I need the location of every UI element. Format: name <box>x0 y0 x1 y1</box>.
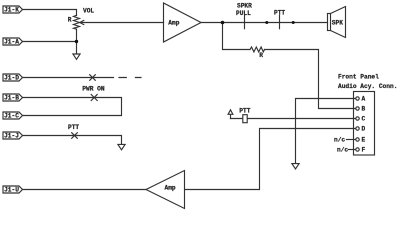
svg-text:Audio Acy. Conn.: Audio Acy. Conn. <box>338 83 397 90</box>
wire J1-A to pot bottom junction <box>23 41 77 43</box>
pin circle D <box>356 127 359 130</box>
svg-text:SPK: SPK <box>332 19 343 26</box>
svg-text:PWR ON: PWR ON <box>82 86 105 93</box>
connector tag J1-U <box>3 186 23 193</box>
svg-text:J1-K: J1-K <box>4 7 19 14</box>
wire Amp1 output bus to speaker <box>201 22 328 24</box>
svg-text:PTT: PTT <box>239 107 250 114</box>
switch SPKR PULL <box>244 15 246 28</box>
svg-text:n/c: n/c <box>334 136 345 143</box>
svg-text:J1-J: J1-J <box>4 133 19 140</box>
svg-text:Front Panel: Front Panel <box>338 73 379 80</box>
svg-text:PTT: PTT <box>68 124 79 131</box>
wire PTT jack to connector pin C <box>231 118 356 120</box>
svg-text:J1-U: J1-U <box>4 187 19 194</box>
connector J2 Front Panel Audio Acy. Conn. box <box>354 92 375 156</box>
svg-text:SPKR: SPKR <box>237 2 252 9</box>
svg-text:J1-A: J1-A <box>4 39 19 46</box>
wire resistor to connector pin B <box>265 50 356 109</box>
speaker SPK driver <box>328 14 331 31</box>
wire connector pin D to Amp2 input <box>185 129 356 190</box>
svg-text:F: F <box>362 147 366 154</box>
PTT jack box <box>243 115 247 123</box>
switch X PTT on J1-J <box>72 133 78 139</box>
op-amp Amp2 <box>146 171 185 209</box>
svg-text:VOL: VOL <box>83 7 94 14</box>
node junction dot pot / J1-A <box>75 40 78 43</box>
potentiometer R (VOL) zigzag <box>74 15 80 29</box>
svg-text:Amp: Amp <box>168 19 179 26</box>
wire Amp2 output to J1-U <box>23 189 147 191</box>
svg-text:Amp: Amp <box>165 184 176 191</box>
wire J1-D <box>23 77 114 79</box>
svg-text:D: D <box>362 126 366 133</box>
n/c stub pin F <box>349 149 356 151</box>
switch PTT <box>279 15 281 28</box>
pin circle B <box>356 107 359 110</box>
ground under J1-J line <box>118 144 125 149</box>
PTT jack up arrow <box>228 110 233 119</box>
pin circle A <box>356 97 359 100</box>
connector tag J1-C <box>3 112 23 119</box>
svg-text:R: R <box>68 17 72 24</box>
svg-text:C: C <box>362 116 366 123</box>
resistor R <box>250 47 265 52</box>
wiper arrow <box>80 20 84 24</box>
wire node to resistor branch <box>223 23 251 50</box>
svg-text:J1-B: J1-B <box>4 95 19 102</box>
wire J1-B through PWR ON to loop <box>23 98 122 116</box>
wire J1-J to ground <box>23 136 122 145</box>
ground under pot <box>73 54 80 59</box>
op-amp Amp1 <box>164 3 202 42</box>
dashed wire continuation <box>119 77 141 79</box>
svg-text:n/c: n/c <box>337 146 348 153</box>
pot bottom wire <box>76 29 78 54</box>
node junction dot Amp1 output <box>221 21 225 25</box>
pin circle C <box>356 117 359 120</box>
wire J1-K to pot top <box>23 10 77 16</box>
n/c stub pin E <box>347 139 356 141</box>
connector tag J1-J <box>3 132 23 139</box>
connector tag J1-D <box>3 74 23 81</box>
connector tag J1-A <box>3 38 23 45</box>
pin circle E <box>356 138 359 141</box>
speaker SPK horn <box>331 7 346 38</box>
junction dot right of PTT switch <box>292 21 295 24</box>
svg-text:J1-C: J1-C <box>4 113 19 120</box>
svg-text:PTT: PTT <box>274 9 285 16</box>
wire wiper to Amp1 input <box>80 22 163 24</box>
svg-text:A: A <box>362 96 366 103</box>
junction dot left of PTT switch <box>265 21 268 24</box>
connector tag J1-K <box>3 6 23 13</box>
connector tag J1-B <box>3 94 23 101</box>
svg-text:B: B <box>362 106 366 113</box>
wire connector pin A to ground <box>296 99 356 164</box>
pin circle F <box>356 148 359 151</box>
ground under pin A wire <box>292 164 299 169</box>
svg-text:E: E <box>362 137 366 144</box>
svg-text:PULL: PULL <box>236 10 251 17</box>
switch X PWR ON <box>91 95 97 101</box>
svg-text:R: R <box>259 52 263 59</box>
switch X on J1-D <box>90 75 96 81</box>
svg-text:J1-D: J1-D <box>4 75 19 82</box>
